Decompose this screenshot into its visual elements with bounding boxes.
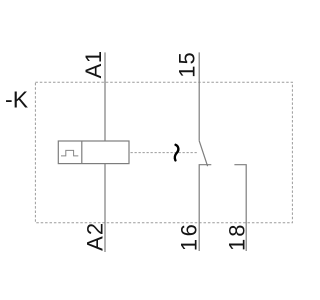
wire A1 (coil top lead) [104, 52, 106, 141]
mechanical link (dashed actuator line) [131, 152, 198, 154]
wire 15 (contact common lead) [198, 52, 200, 140]
flasher function symbol (vertical tilde) [175, 145, 179, 161]
svg-text:A2: A2 [83, 223, 108, 251]
terminal 18 contact seat [234, 165, 246, 251]
contact lever (switch arm 15) [199, 141, 207, 166]
svg-text:A1: A1 [81, 51, 106, 79]
coil K (rectangle body) [58, 141, 129, 164]
svg-text:-: - [5, 86, 13, 112]
terminal 16 contact seat [199, 165, 211, 251]
coil divider line [81, 141, 83, 164]
svg-text:15: 15 [175, 52, 200, 78]
wire A2 (coil bottom lead) [104, 164, 106, 252]
relay enclosure outline (dashed) [35, 82, 292, 223]
pulse / impulse symbol inside coil [61, 150, 78, 156]
svg-text:16: 16 [177, 224, 202, 251]
svg-text:K: K [13, 86, 29, 112]
